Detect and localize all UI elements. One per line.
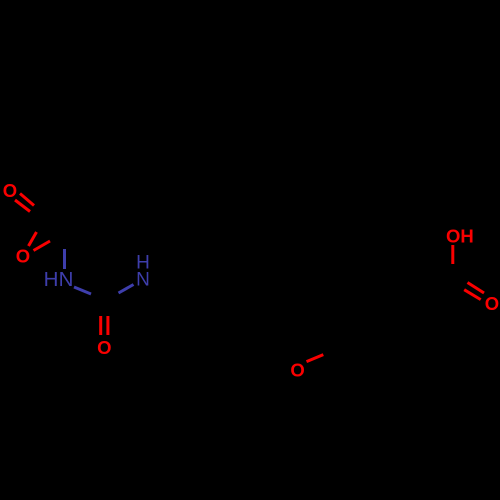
bond O4-ring (half near O4) [307,355,324,362]
svg-text:O: O [16,246,30,267]
bond C3-N2 (urea, half near N2) [119,285,134,294]
svg-text:OH: OH [446,225,474,246]
bond C2-N1 (half near N1, vertical blue) [63,249,66,269]
bond O2-C2 (ester O to quaternary C, half near O2) [34,241,51,251]
bond O2-C1 (ester O to carbonyl C, half near O2) [29,232,37,246]
svg-text:N: N [136,269,150,290]
bond N1-C3 (urea, half near N1) [74,287,91,294]
acid double bond C4=O5 (halves near O5) [464,283,484,300]
svg-text:O: O [97,337,111,358]
svg-text:N: N [59,268,74,291]
bond O(H)-C4 (half near O, vertical) [451,245,454,264]
urea double bond C3=O3 (halves near O3) [101,316,108,335]
carbonyl double bond C1=O1 (ester C=O, half near O1) [15,194,34,212]
svg-text:O: O [3,180,17,201]
svg-text:H: H [44,268,59,291]
svg-text:O: O [485,293,499,314]
svg-text:O: O [290,359,304,380]
